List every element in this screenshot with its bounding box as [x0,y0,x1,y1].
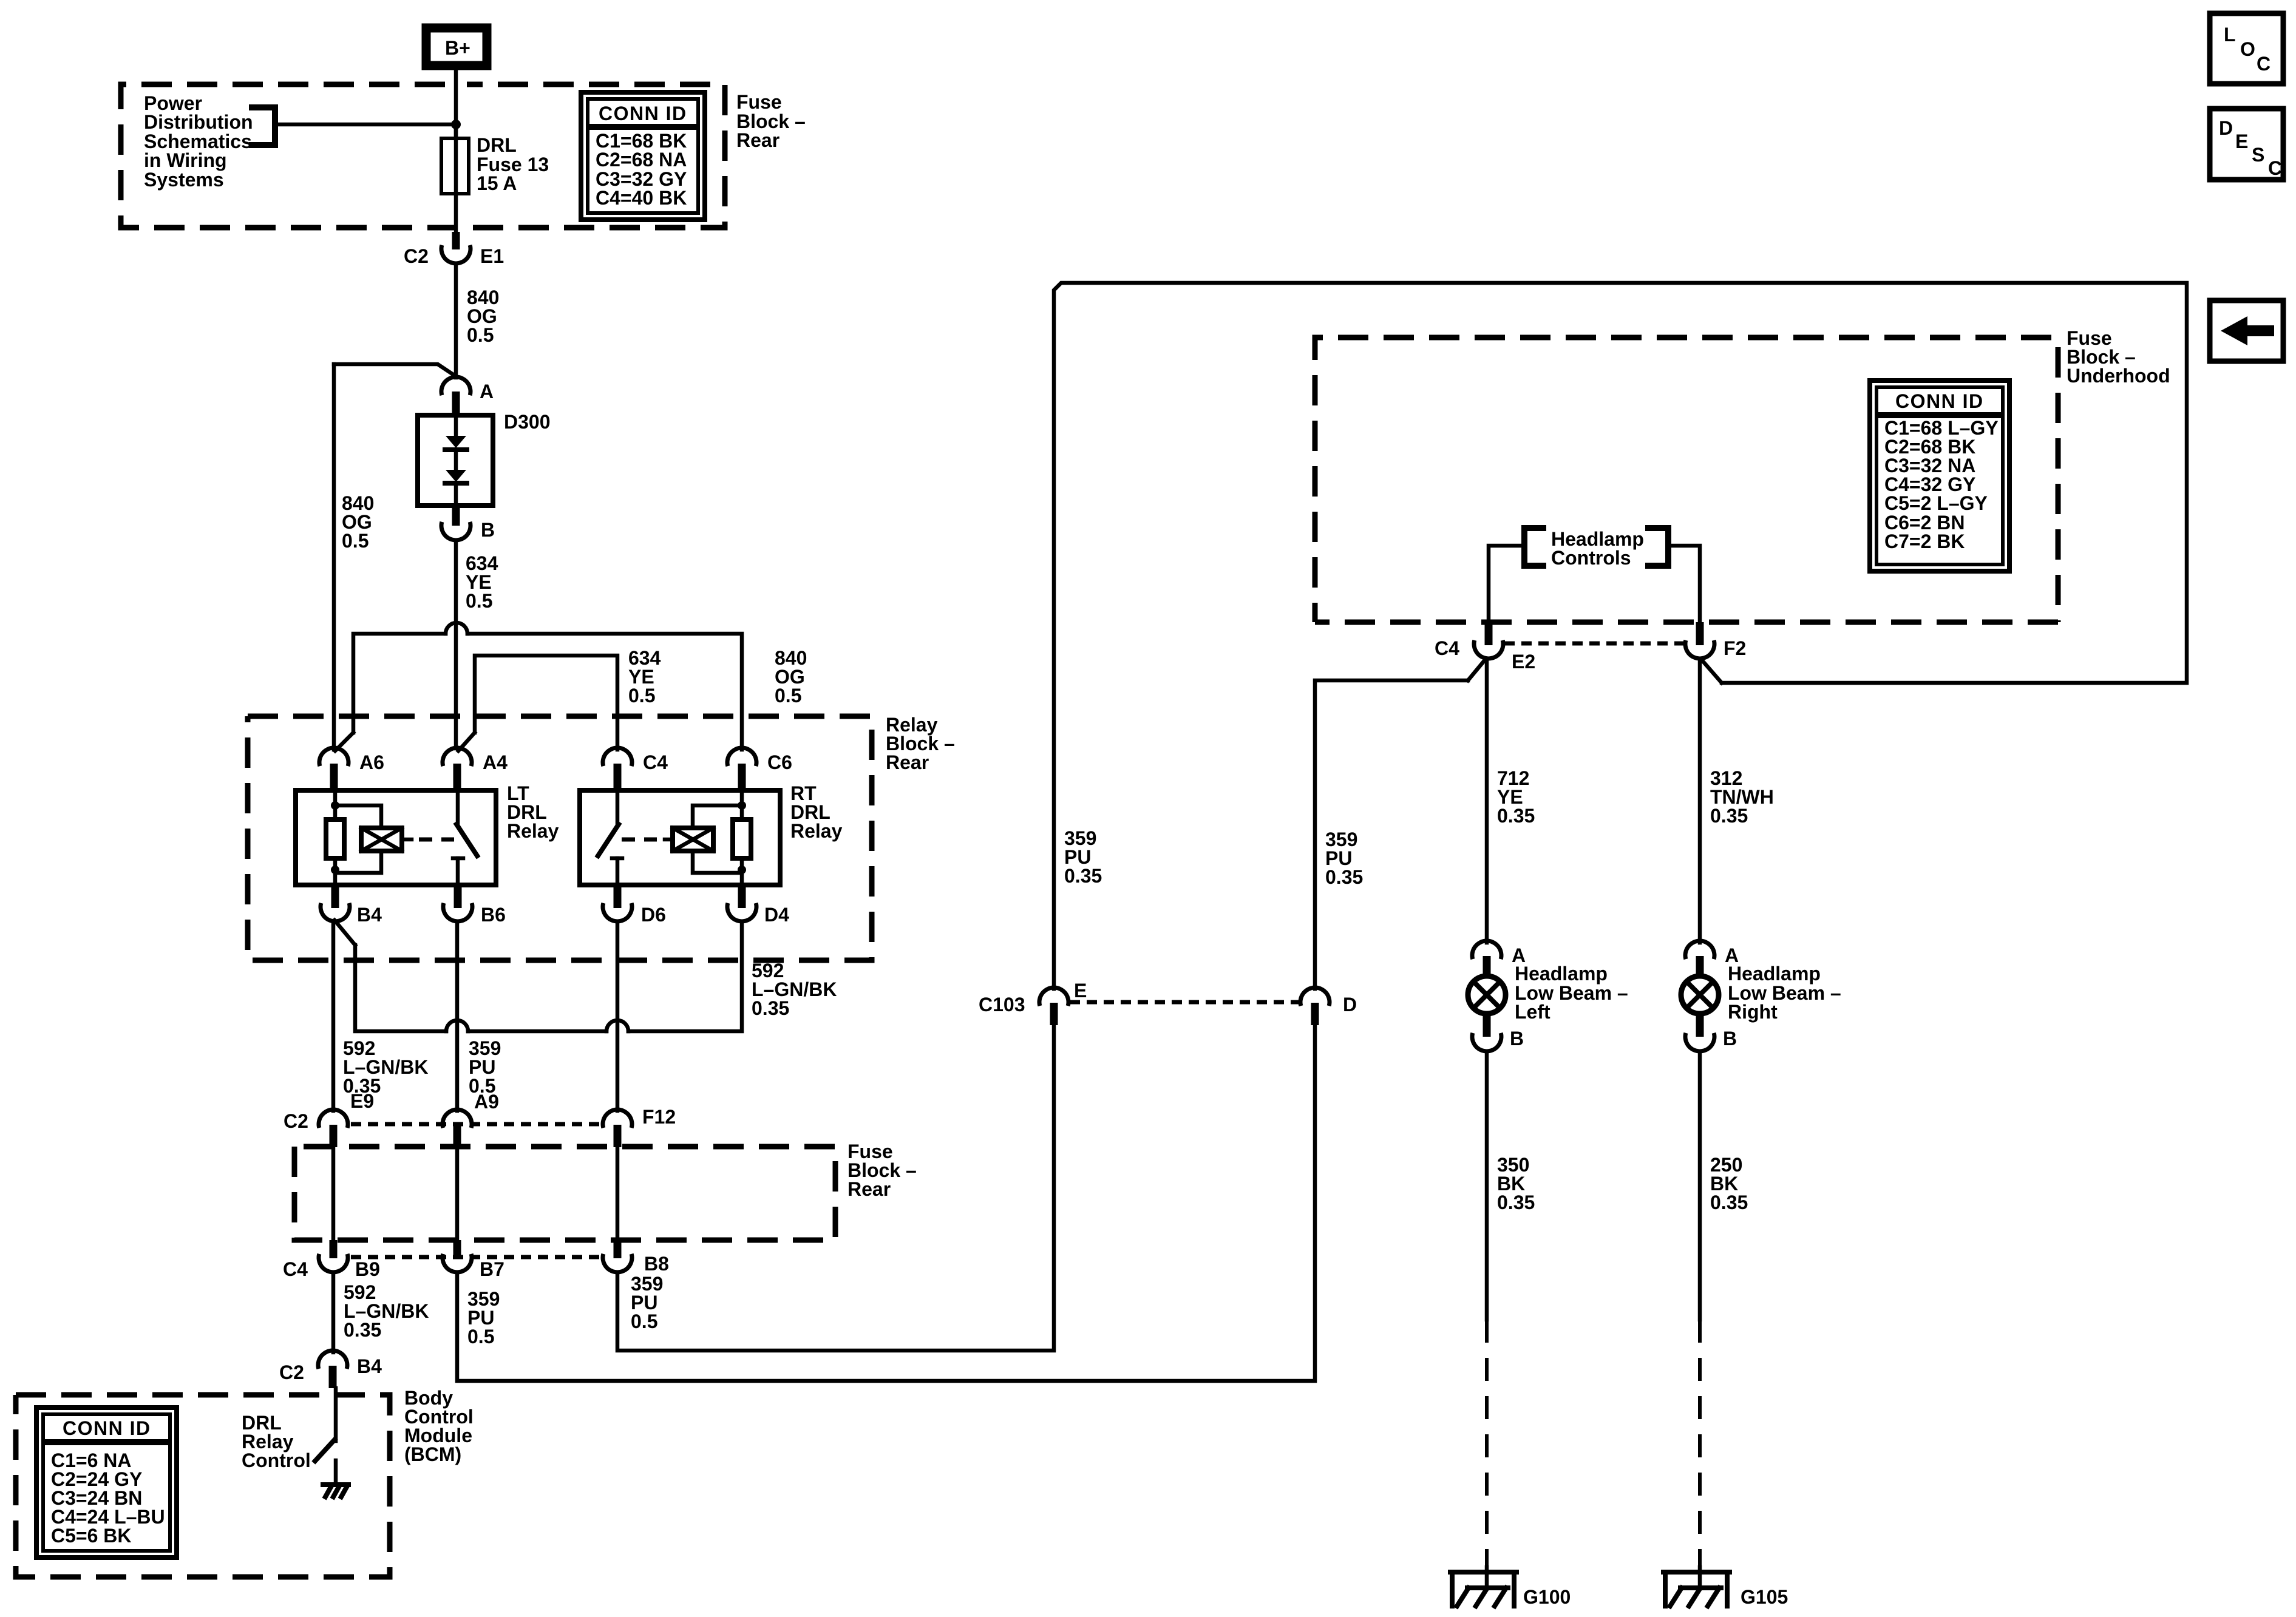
LT relay switch [453,790,477,885]
wire E1 to branch, label 840 OG 0.5 [456,263,499,378]
svg-text:0.35: 0.35 [1497,1192,1535,1213]
svg-text:Headlamp: Headlamp [1728,963,1821,985]
wire B+ to fuse [454,70,458,138]
LOC reference box [2210,13,2283,84]
svg-text:D4: D4 [764,904,789,926]
svg-text:Control: Control [242,1449,311,1471]
wire bracket to node [275,123,456,127]
svg-text:E9: E9 [350,1090,374,1112]
connector C4/B9 [283,1240,380,1280]
bracket after Power Distribution label [252,107,275,145]
dashed box Relay Block - Rear [248,716,872,960]
svg-text:A9: A9 [474,1091,499,1113]
LT DRL Relay box [296,790,496,885]
svg-text:C2=68 NA: C2=68 NA [596,149,687,171]
svg-text:0.5: 0.5 [342,530,369,552]
svg-text:0.35: 0.35 [752,997,789,1019]
svg-text:C2: C2 [279,1361,304,1383]
label Fuse Block - Rear (lower) [847,1141,917,1200]
connector B6 [443,885,506,926]
svg-text:Rear: Rear [847,1178,891,1200]
svg-text:CONN ID: CONN ID [1895,390,1984,412]
connector A of D300 [441,377,494,415]
svg-text:E: E [1074,980,1087,1002]
wire 840 OG left branch down to A6, label [334,364,374,750]
svg-text:Right: Right [1728,1001,1778,1023]
svg-text:C103: C103 [979,994,1025,1015]
ground G105 [1663,1572,1788,1608]
svg-text:C5=6 BK: C5=6 BK [51,1525,132,1547]
horizontal 634 branch wire to C4 [475,656,617,750]
label Headlamp Controls [1551,528,1644,569]
svg-text:0.5: 0.5 [631,1310,657,1332]
svg-text:E1: E1 [480,245,504,267]
dotted connector line E2-F2 [1504,642,1684,646]
svg-text:B: B [1723,1028,1737,1049]
svg-text:A4: A4 [483,751,508,773]
connector A9 [443,1091,499,1147]
fuse DRL Fuse 13 15A [441,124,469,194]
connector A (left lamp) [1472,941,1526,978]
bracket right of Headlamp Controls [1648,528,1668,566]
wire E2 down to left lamp [1487,659,1535,943]
RT relay coil [665,805,742,873]
svg-text:S: S [2252,144,2264,166]
wire D6 down to F12 [616,921,620,1111]
svg-text:Relay: Relay [790,820,843,842]
label Fuse Block - Rear (top) [736,91,806,151]
RT relay resistor leg [733,790,751,885]
svg-text:G105: G105 [1741,1586,1788,1608]
svg-text:CONN ID: CONN ID [599,103,687,124]
svg-text:E: E [2235,131,2248,152]
svg-text:0.5: 0.5 [628,685,655,707]
svg-text:O: O [2240,38,2255,60]
connector C2/E9 [284,1090,374,1147]
branch wire to left (840 OG) [334,364,456,376]
svg-text:in Wiring: in Wiring [144,149,227,171]
wire B9 down to BCM B4 [331,1272,336,1352]
svg-text:B8: B8 [644,1253,669,1275]
label Headlamp Low Beam - Right [1728,963,1841,1023]
svg-text:F2: F2 [1724,637,1746,659]
connector B of D300 [441,506,495,541]
svg-text:0.35: 0.35 [1497,805,1535,827]
diagonal wire into A4 [458,733,475,751]
wire B4 down to E9 [331,921,336,1111]
svg-text:CONN ID: CONN ID [63,1417,151,1439]
connector F2 [1685,622,1746,659]
svg-text:C: C [2268,157,2282,179]
svg-text:L: L [2224,24,2236,46]
bracket left of Headlamp Controls [1524,528,1543,566]
svg-text:Headlamp: Headlamp [1515,963,1608,985]
connector B7 [443,1240,504,1280]
CONN ID table (Fuse Block - Rear) [581,92,705,220]
svg-text:D300: D300 [504,411,551,433]
dashed box Fuse Block - Rear (top) [121,84,725,228]
svg-text:C4: C4 [643,751,668,773]
connector B (right lamp) [1685,1014,1737,1051]
connector C6 [727,748,792,790]
svg-text:C4=40 BK: C4=40 BK [596,187,687,209]
svg-text:E2: E2 [1512,651,1535,673]
svg-text:C2: C2 [404,245,429,267]
connector C2/E1 [404,232,504,267]
wire B down (634 YE 0.5) [456,540,498,748]
diagonal wire into A6 [335,733,353,751]
connector F12 [603,1106,676,1147]
connector C103 E [979,980,1087,1025]
label Relay Block - Rear [886,714,955,773]
connector C4/E2 [1435,622,1535,673]
svg-text:0.5: 0.5 [466,590,492,612]
connector D [1300,988,1357,1025]
svg-text:F12: F12 [642,1106,676,1128]
dashed box Fuse Block - Underhood [1315,337,2058,622]
wire B7 to connector D (359 PU) [457,1025,1315,1381]
svg-text:0.5: 0.5 [467,1326,494,1347]
connector A6 [319,748,384,790]
wire E up and big loop to F2 [1054,283,2187,989]
junction node at fuse top [451,120,461,129]
wire headlamp controls to F2 [1668,546,1700,625]
RT relay switch [598,790,622,885]
LT relay actuator dashed link [419,838,454,842]
svg-text:A: A [480,381,494,402]
svg-text:C7=2 BK: C7=2 BK [1884,531,1965,552]
CONN ID table (Fuse Block - Underhood) [1870,381,2009,571]
battery feed B+ symbol [426,28,487,66]
wire left lamp B to ground, label 350 BK 0.35 [1487,1051,1535,1588]
svg-text:B4: B4 [357,1355,382,1377]
dotted connector line B9-B7-B8 [351,1255,603,1259]
label 359 PU 0.5 (below B6) [469,1037,501,1097]
DESC reference box [2210,109,2283,180]
connector C4 [603,748,668,790]
svg-text:0.35: 0.35 [1064,865,1102,887]
dashed box Fuse Block - Rear (lower) [294,1147,835,1240]
diode assembly D300 [418,411,551,506]
lamp Headlamp Low Beam - Right [1681,976,1719,1014]
LT relay resistor leg [326,790,344,885]
LT relay label [507,782,559,842]
RT relay actuator dashed link [622,838,657,842]
svg-text:Rear: Rear [736,129,779,151]
svg-text:C4: C4 [1435,637,1459,659]
svg-text:B7: B7 [480,1258,504,1280]
label Power Distribution Schematics in Wiring Systems [144,92,253,191]
svg-text:B9: B9 [355,1258,380,1280]
svg-text:0.5: 0.5 [467,324,494,346]
lamp Headlamp Low Beam - Left [1468,976,1506,1014]
svg-text:C6: C6 [767,751,792,773]
label Headlamp Low Beam - Left [1515,963,1628,1023]
svg-text:B: B [481,519,495,541]
svg-text:Systems: Systems [144,169,224,191]
label Fuse Block - Underhood [2067,327,2170,387]
592 link wire B4 to D4 with hops [355,921,742,1031]
svg-text:C: C [2257,53,2271,75]
svg-text:0.35: 0.35 [1325,866,1363,888]
svg-text:C2: C2 [284,1110,308,1132]
svg-text:C5=2 L–GY: C5=2 L–GY [1884,492,1988,514]
diagonal B4 to 592 link [335,920,355,945]
horizontal 840 branch wire to C6 with hop over 634 wire [353,623,742,750]
svg-text:Underhood: Underhood [2067,365,2170,387]
dotted connector line E9-A9-F12 [351,1122,603,1127]
svg-text:0.35: 0.35 [1710,1192,1748,1213]
svg-text:0.5: 0.5 [775,685,801,707]
svg-text:D6: D6 [641,904,666,926]
wire B8 to connector E (359 PU) [617,1025,1054,1351]
label DRL Fuse 13 15 A [477,134,549,194]
svg-text:0.35: 0.35 [1710,805,1748,827]
label DRL Relay Control [242,1412,311,1471]
fuse block internal wires [333,1147,617,1240]
dashed box Body Control Module [16,1395,390,1577]
BCM internal ground [323,1460,348,1497]
BCM switch DRL relay control [315,1388,336,1461]
svg-text:C4: C4 [283,1258,308,1280]
wire D up to E2 diagonal [1315,659,1486,989]
wire B6 down to A9 [455,921,460,1111]
connector B8 [603,1240,669,1275]
svg-text:G100: G100 [1523,1586,1571,1608]
svg-text:(BCM): (BCM) [404,1443,461,1465]
wire right lamp B to ground, label 250 BK 0.35 [1700,1051,1748,1588]
svg-text:DRL: DRL [477,134,517,156]
ground G100 [1450,1572,1571,1608]
dotted connector line E-D [1070,1000,1299,1005]
RT DRL Relay box [580,790,780,885]
LT relay coil [335,805,412,873]
connector B4 [321,885,382,926]
RT relay label [790,782,843,842]
svg-text:Relay: Relay [507,820,559,842]
svg-text:0.35: 0.35 [344,1319,381,1341]
svg-text:B: B [1510,1028,1524,1049]
connector A4 [443,748,508,790]
svg-text:Rear: Rear [886,751,929,773]
label 592 L-GN/BK 0.35 (below B4) [343,1037,428,1097]
label 592 L-GN/BK 0.35 (below B9) [344,1281,429,1341]
CONN ID table (BCM) [36,1408,177,1558]
label 634 YE 0.5 (branch) [628,647,661,707]
label 592 L-GN/BK 0.35 (at D4) [752,960,837,1019]
svg-text:B6: B6 [481,904,506,926]
svg-text:Controls: Controls [1551,547,1631,569]
label 359 PU 0.35 (D wire) [1325,829,1363,888]
svg-text:B4: B4 [357,904,382,926]
label Body Control Module (BCM) [404,1387,474,1465]
svg-text:Fuse: Fuse [736,91,782,113]
connector A (right lamp) [1685,941,1739,978]
connector B (left lamp) [1472,1014,1524,1051]
svg-text:15 A: 15 A [477,172,517,194]
label 840 OG 0.5 (branch) [775,647,807,707]
connector D6 [603,885,666,926]
svg-text:B+: B+ [445,37,470,59]
svg-text:D: D [1343,994,1357,1015]
wire headlamp controls to E2 [1489,546,1524,625]
svg-text:Left: Left [1515,1001,1550,1023]
label 359 PU 0.35 (E wire) [1064,827,1102,887]
connector D4 [727,885,789,926]
label 359 PU 0.5 (below B7) [467,1288,500,1347]
connector C2/B4 (BCM DRL relay control) [279,1351,382,1388]
svg-text:A6: A6 [359,751,384,773]
svg-text:Distribution: Distribution [144,111,253,133]
label 359 PU 0.5 (below B8) [631,1273,663,1332]
wire F2 down to right lamp [1700,659,1774,943]
wire fuse to connector E1 [454,194,458,239]
svg-text:D: D [2219,117,2233,139]
arrow navigation box [2210,300,2283,361]
